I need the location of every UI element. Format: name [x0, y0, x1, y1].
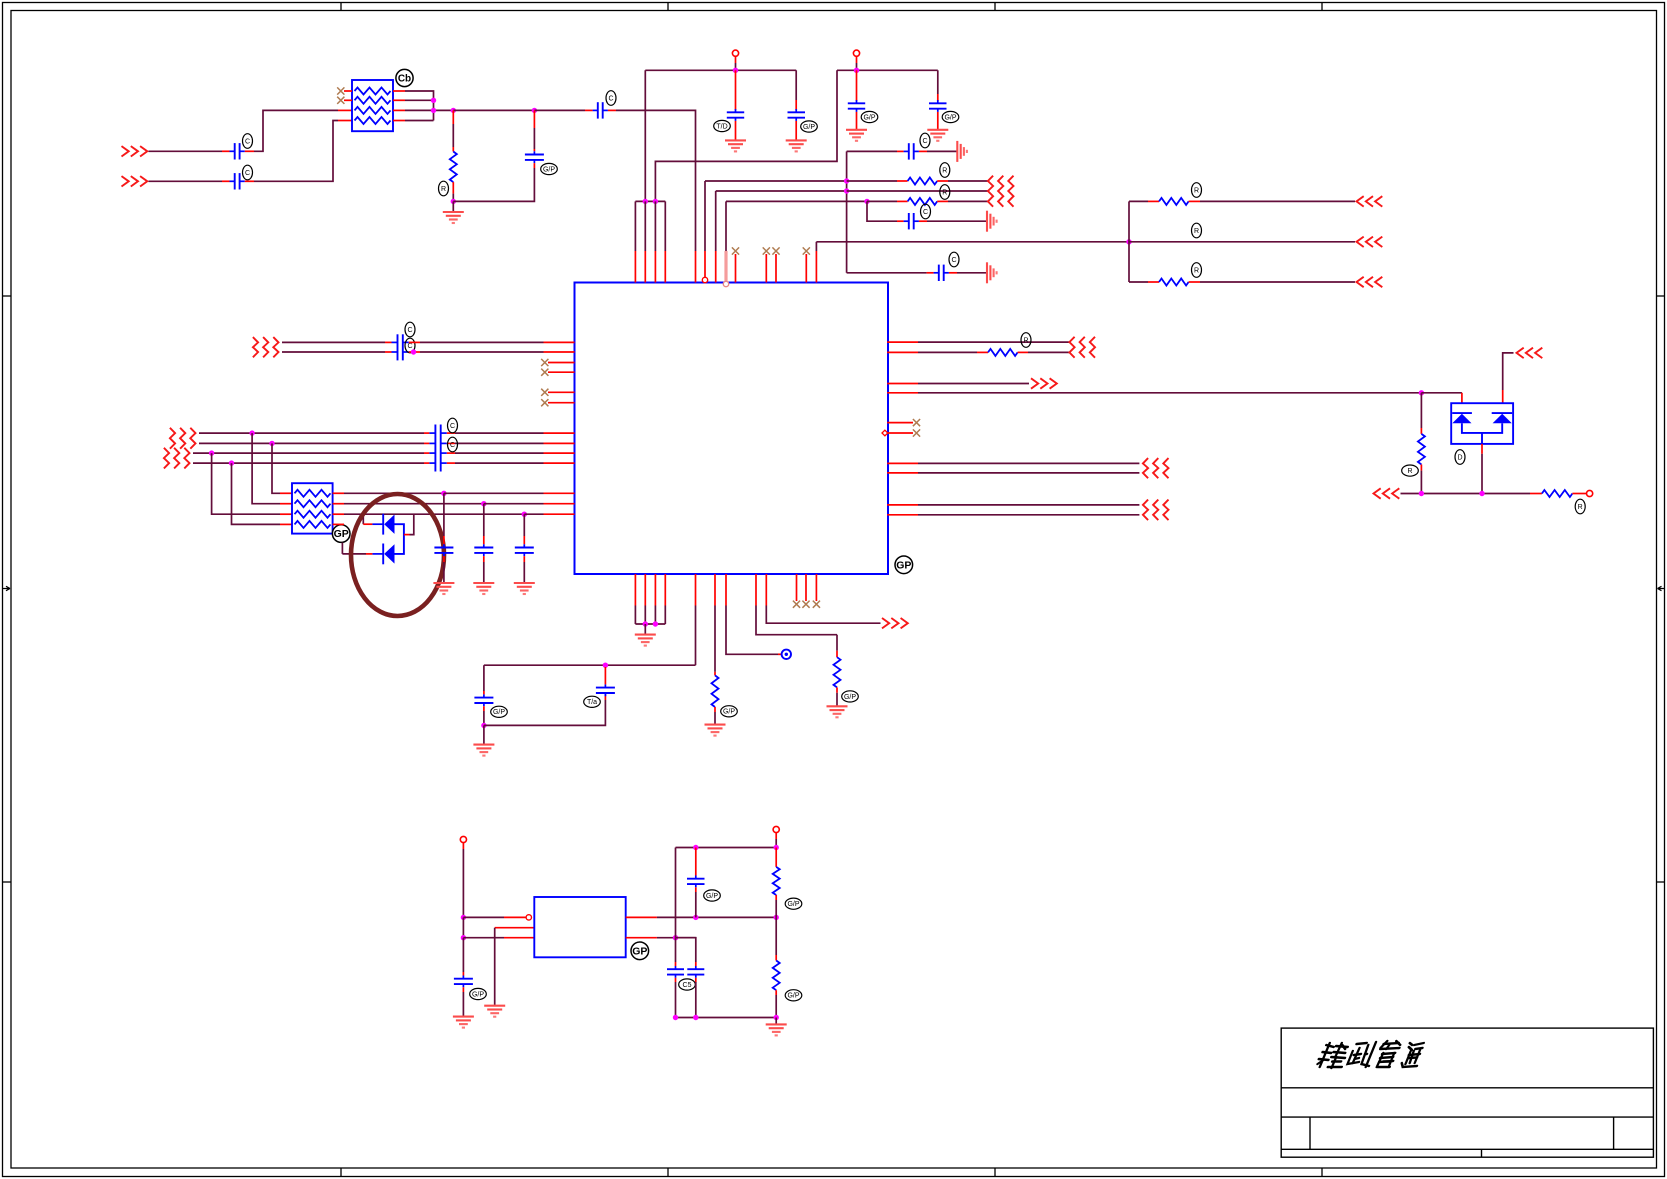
border zone ticks left — [3, 295, 12, 297]
wire branch to C11 — [847, 272, 927, 274]
U1 right pin y=504.9 — [887, 504, 918, 506]
pin lead — [1018, 351, 1028, 353]
pin lead — [222, 150, 230, 152]
wire crossover to FB2 in2 — [252, 433, 280, 504]
U1 left no-connect pin y=392.3 — [548, 391, 575, 393]
pin lead — [409, 341, 420, 343]
pin lead — [977, 351, 988, 353]
junction — [1479, 491, 1484, 496]
wire — [795, 70, 797, 100]
border zone ticks top — [340, 3, 342, 11]
wire — [918, 504, 1139, 506]
wire — [918, 341, 1069, 343]
bus off-page arrows rows 342/352 — [1069, 337, 1074, 358]
pin lead — [409, 351, 420, 353]
pin lead — [949, 272, 957, 274]
pin lead — [937, 112, 939, 129]
capacitor C at x=524.3 — [523, 514, 525, 536]
U1 bottom pin x=715 — [714, 574, 716, 606]
pin lead — [1189, 200, 1200, 202]
pin lead — [836, 687, 838, 692]
U1 top pin group bar — [635, 200, 665, 202]
svg-text:GP: GP — [632, 945, 647, 957]
U1 top no-connect pin x=735.5 — [735, 254, 737, 283]
pin lead — [937, 94, 939, 101]
wire net to right bank — [816, 241, 1129, 243]
svg-text:G/P: G/P — [944, 114, 956, 121]
pin lead FB2 out1 — [333, 492, 344, 494]
wire — [948, 200, 989, 202]
svg-text:R: R — [1194, 228, 1199, 235]
resistor R4 — [1159, 198, 1189, 205]
wire — [847, 190, 989, 192]
U1 left no-connect pin y=362.5 — [548, 362, 575, 364]
wire output rail — [657, 916, 776, 918]
pin lead — [775, 990, 777, 995]
U1 left pin y=443.4 — [544, 442, 575, 444]
wire — [149, 180, 223, 182]
U1 top pin x=715.7 — [715, 191, 717, 251]
wire — [775, 900, 777, 917]
pin lead — [1148, 200, 1159, 202]
U1 right pin y=352.4 — [887, 351, 918, 353]
junction — [844, 188, 849, 193]
U1 right pin y=392.8 — [887, 392, 918, 394]
wire — [775, 995, 777, 1018]
U1 bottom pin x=756 — [755, 574, 757, 606]
resistor R8 — [834, 657, 841, 687]
wire row y=181 — [705, 180, 847, 182]
power terminal P1 — [732, 50, 738, 56]
bus off-page arrows (rows 181-201) — [988, 176, 993, 207]
svg-text:Cb: Cb — [398, 74, 411, 85]
wire to U2 pin 3 — [463, 937, 504, 939]
pin lead — [385, 351, 392, 353]
border center arrow right — [1658, 586, 1666, 590]
pin lead — [695, 887, 697, 892]
capacitor C18 — [675, 966, 677, 969]
off-page connector B (row y=181) — [122, 176, 129, 186]
U1 right no-connect pin y=422.6 — [887, 422, 913, 424]
pin lead FB1 out3 — [393, 109, 405, 111]
capacitor C8 — [937, 100, 939, 103]
wire — [420, 341, 544, 343]
pin lead — [775, 895, 777, 900]
pin lead — [338, 120, 352, 122]
wire to FB2 in4 — [232, 463, 281, 524]
U1 top pin x=665.3 — [664, 201, 666, 251]
ground — [484, 1005, 505, 1007]
svg-text:G/P: G/P — [787, 993, 799, 1000]
wire — [1420, 471, 1422, 494]
wire node y=665.2 — [484, 664, 696, 666]
wire — [462, 849, 464, 917]
wire — [483, 725, 485, 743]
pin lead — [1148, 281, 1159, 283]
junction — [844, 178, 849, 183]
wire — [1420, 393, 1422, 428]
pin stub FB2 out4 — [333, 523, 344, 525]
U1 right pin y=514.8 — [887, 514, 918, 516]
wire to filter input 3 — [254, 110, 338, 151]
ground — [766, 1023, 787, 1025]
U1 left pin y=433.1 — [544, 432, 575, 434]
wire top rail — [775, 839, 777, 848]
U1 top pin x=655.4 — [654, 201, 656, 251]
wire — [1481, 454, 1483, 494]
svg-text:C: C — [245, 138, 250, 145]
power terminal P2 — [853, 50, 859, 56]
svg-text:C: C — [923, 209, 928, 216]
diode D2 — [382, 544, 384, 565]
svg-text:C: C — [450, 423, 455, 430]
net flag GP at FB2 — [332, 525, 350, 543]
wire bottom rail — [676, 1017, 777, 1019]
svg-text:G/P: G/P — [803, 124, 815, 131]
U1 bottom pin x=766.3 — [765, 574, 767, 606]
pin lead — [1572, 493, 1586, 495]
pin lead FB1 out4 — [393, 120, 405, 122]
svg-text:C: C — [608, 95, 613, 102]
capacitor C19 — [695, 966, 697, 969]
wire — [282, 351, 385, 353]
capacitor C10 (series) — [904, 220, 909, 222]
ground — [443, 211, 464, 213]
pin lead — [585, 109, 593, 111]
pin lead — [1420, 465, 1422, 471]
U1 right pin y=463.4 — [887, 462, 918, 464]
wire — [462, 938, 464, 972]
junction — [643, 621, 648, 626]
junction — [522, 512, 527, 517]
pin lead FB1 out1 — [393, 90, 405, 92]
wire — [657, 937, 696, 939]
off-page connector — [1517, 348, 1524, 358]
test point TP1 — [782, 650, 791, 659]
wire — [1129, 281, 1148, 283]
junction — [269, 441, 274, 446]
resistor R6 — [988, 349, 1018, 356]
resistor R11 — [1418, 434, 1425, 465]
wire — [644, 624, 646, 634]
U1 top pin x=635.4 — [634, 201, 636, 251]
svg-text:C: C — [951, 257, 956, 264]
junction — [411, 349, 416, 354]
svg-text:C: C — [245, 170, 250, 177]
pin lead — [897, 200, 908, 202]
junction — [209, 450, 214, 455]
svg-text:G/P: G/P — [493, 709, 505, 716]
pin lead FB2 out3 — [333, 513, 344, 515]
U1 left no-connect pin y=372.2 — [548, 371, 575, 373]
junction — [733, 68, 738, 73]
pin lead — [714, 707, 716, 712]
U1 left pin y=514.2 — [544, 513, 575, 515]
U1 top pin x=705 with bubble — [704, 181, 706, 251]
wire — [149, 150, 223, 152]
wire — [484, 503, 544, 505]
wire — [534, 109, 585, 111]
junction — [451, 108, 456, 113]
ground — [846, 129, 867, 131]
wire diode common — [1462, 423, 1502, 433]
U1 top pin x=816.4 — [815, 242, 817, 251]
off-page connector — [1357, 277, 1364, 287]
wire rail 1 — [735, 63, 737, 70]
junction — [1419, 491, 1424, 496]
U1 top pin x=645.3 — [644, 201, 646, 251]
junction — [1419, 390, 1424, 395]
wire — [847, 180, 897, 182]
off-page connector A (row y=151) — [122, 146, 129, 156]
U2 pin lead — [626, 937, 657, 939]
U1 top no-connect pin x=806.3 — [805, 254, 807, 283]
wire pin group bar — [635, 623, 665, 625]
svg-text:GP: GP — [896, 559, 911, 571]
svg-text:R: R — [1407, 468, 1412, 475]
svg-text:G/P: G/P — [472, 991, 484, 998]
ground — [635, 634, 656, 636]
wire — [937, 70, 939, 94]
U1 bottom no-connect pin x=806.0 — [805, 574, 807, 601]
resistor R2 — [908, 178, 938, 185]
capacitor C9 (series) — [904, 150, 909, 152]
U1 right no-connect pin y=433 with diamond — [882, 430, 888, 436]
capacitor C at x=443.9 — [443, 493, 445, 536]
pin lead — [1502, 390, 1504, 403]
off-page connector — [1031, 378, 1038, 388]
border center arrow left — [3, 586, 11, 590]
pin lead — [937, 200, 948, 202]
ground — [514, 582, 535, 584]
wire — [483, 711, 485, 725]
svg-text:R: R — [1194, 267, 1199, 274]
junction — [249, 430, 254, 435]
pin lead — [695, 848, 697, 876]
pin lead — [533, 110, 535, 128]
junction — [461, 915, 466, 920]
junction — [441, 491, 446, 496]
resistor R12 — [1542, 490, 1573, 497]
svg-text:C: C — [407, 327, 412, 334]
junction — [673, 935, 678, 940]
wire — [918, 462, 1139, 464]
wire — [344, 503, 484, 505]
wire bottom net — [1401, 493, 1531, 495]
capacitor C5 — [735, 109, 737, 112]
junction — [643, 199, 648, 204]
svg-text:D: D — [1457, 454, 1462, 461]
wire — [927, 220, 986, 222]
inverting bubble U2 — [526, 915, 531, 920]
filter network FB1 — [352, 80, 393, 131]
wire D2 cathode to GP flag — [372, 553, 383, 555]
junction — [693, 845, 698, 850]
pin lead FB1 out2 — [393, 99, 405, 101]
wire — [452, 194, 454, 202]
wire row y=191 — [716, 190, 847, 192]
pin lead — [735, 70, 737, 110]
capacitor C17 — [695, 876, 697, 879]
wire — [484, 700, 606, 725]
svg-text:R: R — [1194, 187, 1199, 194]
U1 bottom pin x=665.3 — [664, 574, 666, 606]
filter network FB2 — [292, 483, 333, 533]
svg-text:R: R — [1023, 337, 1028, 344]
U1 left pin y=463.1 — [544, 462, 575, 464]
wire — [644, 70, 646, 201]
wire — [676, 938, 696, 962]
border zone ticks right — [1657, 295, 1666, 297]
pin lead — [1461, 393, 1463, 403]
pin lead — [483, 691, 485, 694]
wire — [695, 892, 697, 917]
U1 bottom no-connect pin x=816.4 — [815, 574, 817, 601]
wire — [1200, 281, 1355, 283]
off-page connector — [882, 618, 889, 628]
ground — [927, 129, 948, 131]
wire — [695, 982, 697, 1018]
wire — [675, 848, 677, 938]
svg-text:GP: GP — [334, 528, 349, 540]
junction — [451, 199, 456, 204]
wire — [918, 351, 977, 353]
wire — [405, 99, 434, 101]
power terminal P3 — [460, 836, 466, 842]
wire — [453, 168, 534, 201]
U1 bottom pin x=635.4 — [634, 574, 636, 606]
no-connect pin stub FB1 in2 — [344, 99, 352, 101]
capacitor C3 (series) — [593, 109, 598, 111]
wire — [948, 180, 989, 182]
wire branch to C10 — [867, 201, 897, 221]
wire — [405, 120, 434, 122]
U1 bottom pin x=726 to test point — [725, 574, 727, 606]
off-page connector — [1357, 196, 1364, 206]
capacitor C1 — [230, 150, 235, 152]
capacitor C14 — [483, 694, 485, 697]
pin lead — [919, 220, 927, 222]
wire — [1028, 351, 1069, 353]
wire — [867, 200, 897, 202]
capacitor C13 (4-row series) — [434, 425, 436, 472]
pin lead — [856, 56, 858, 63]
junction — [774, 845, 779, 850]
wire — [524, 513, 543, 515]
pin lead — [452, 182, 454, 194]
wire — [344, 492, 444, 494]
wire — [847, 150, 897, 152]
wire — [775, 917, 777, 955]
diode D3b — [1492, 412, 1513, 414]
U1 left pin y=493.3 — [544, 492, 575, 494]
wire to ground — [494, 928, 496, 1005]
U1 top pin x=726 (highlighted) — [725, 201, 727, 251]
pin lead — [385, 341, 392, 343]
wire — [344, 513, 524, 515]
pin lead — [462, 987, 464, 992]
junction — [653, 199, 658, 204]
svg-text:G/P: G/P — [844, 694, 856, 701]
junction — [774, 1015, 779, 1020]
U2 pin 2 lead — [495, 927, 535, 929]
U1 left pin y=342.4 — [544, 341, 575, 343]
pin lead — [1189, 281, 1200, 283]
wire — [675, 938, 677, 962]
pin lead — [533, 163, 535, 168]
wire — [462, 992, 464, 1016]
pin lead — [695, 251, 697, 283]
junction — [854, 68, 859, 73]
wire to row3 — [410, 514, 414, 534]
svg-text:R: R — [942, 167, 947, 174]
wire — [420, 351, 544, 353]
junction — [673, 1015, 678, 1020]
pin lead — [795, 100, 797, 110]
svg-text:C: C — [407, 343, 412, 350]
svg-text:T/a: T/a — [587, 699, 597, 706]
svg-text:R: R — [1578, 504, 1583, 511]
wire — [836, 693, 838, 706]
wire — [282, 341, 385, 343]
title block frame — [1281, 1028, 1653, 1157]
pin lead — [937, 180, 948, 182]
pin lead — [735, 121, 737, 140]
wire — [453, 109, 534, 111]
U1 top no-connect pin x=766.3 — [765, 254, 767, 283]
dual diode D3 body — [1451, 403, 1513, 444]
junction — [1126, 239, 1131, 244]
pin lead — [927, 272, 934, 274]
pin lead — [245, 150, 254, 152]
pin lead — [856, 70, 858, 101]
pin lead — [675, 978, 677, 982]
bus off-page arrows rows 342/352 — [253, 337, 258, 357]
wire — [452, 201, 454, 211]
capacitor C12 (2-row series) — [397, 334, 399, 360]
svg-text:C: C — [922, 138, 927, 145]
wire bus row y=433.1 — [199, 432, 424, 434]
wire to U1 top pin x=695.5 — [616, 110, 696, 251]
junction — [603, 663, 608, 668]
svg-text:G/P: G/P — [787, 901, 799, 908]
svg-text:C5: C5 — [683, 982, 692, 989]
capacitor C2 — [230, 180, 235, 182]
wire — [1421, 392, 1462, 394]
wire diode anodes bracket — [395, 524, 404, 554]
ground — [705, 724, 726, 726]
junction — [653, 621, 658, 626]
bus off-page arrows rows 453/463 — [164, 448, 169, 469]
resistor R1 — [450, 152, 457, 183]
pin lead — [245, 180, 254, 182]
wire — [452, 110, 454, 124]
svg-text:T/D: T/D — [716, 123, 727, 130]
bus off-page arrows rows 505/515 — [1143, 500, 1148, 520]
wire — [957, 272, 986, 274]
off-page connector — [1374, 488, 1381, 498]
wire — [918, 514, 1139, 516]
ground (rotated) — [986, 211, 988, 232]
pin lead — [608, 109, 616, 111]
pin lead — [404, 534, 410, 536]
power terminal P4 — [773, 826, 779, 832]
svg-text:G/P: G/P — [723, 709, 735, 716]
ground — [453, 1016, 474, 1018]
wire to U2 pin 1 — [463, 916, 504, 918]
capacitor C6 — [795, 109, 797, 112]
junction — [774, 915, 779, 920]
